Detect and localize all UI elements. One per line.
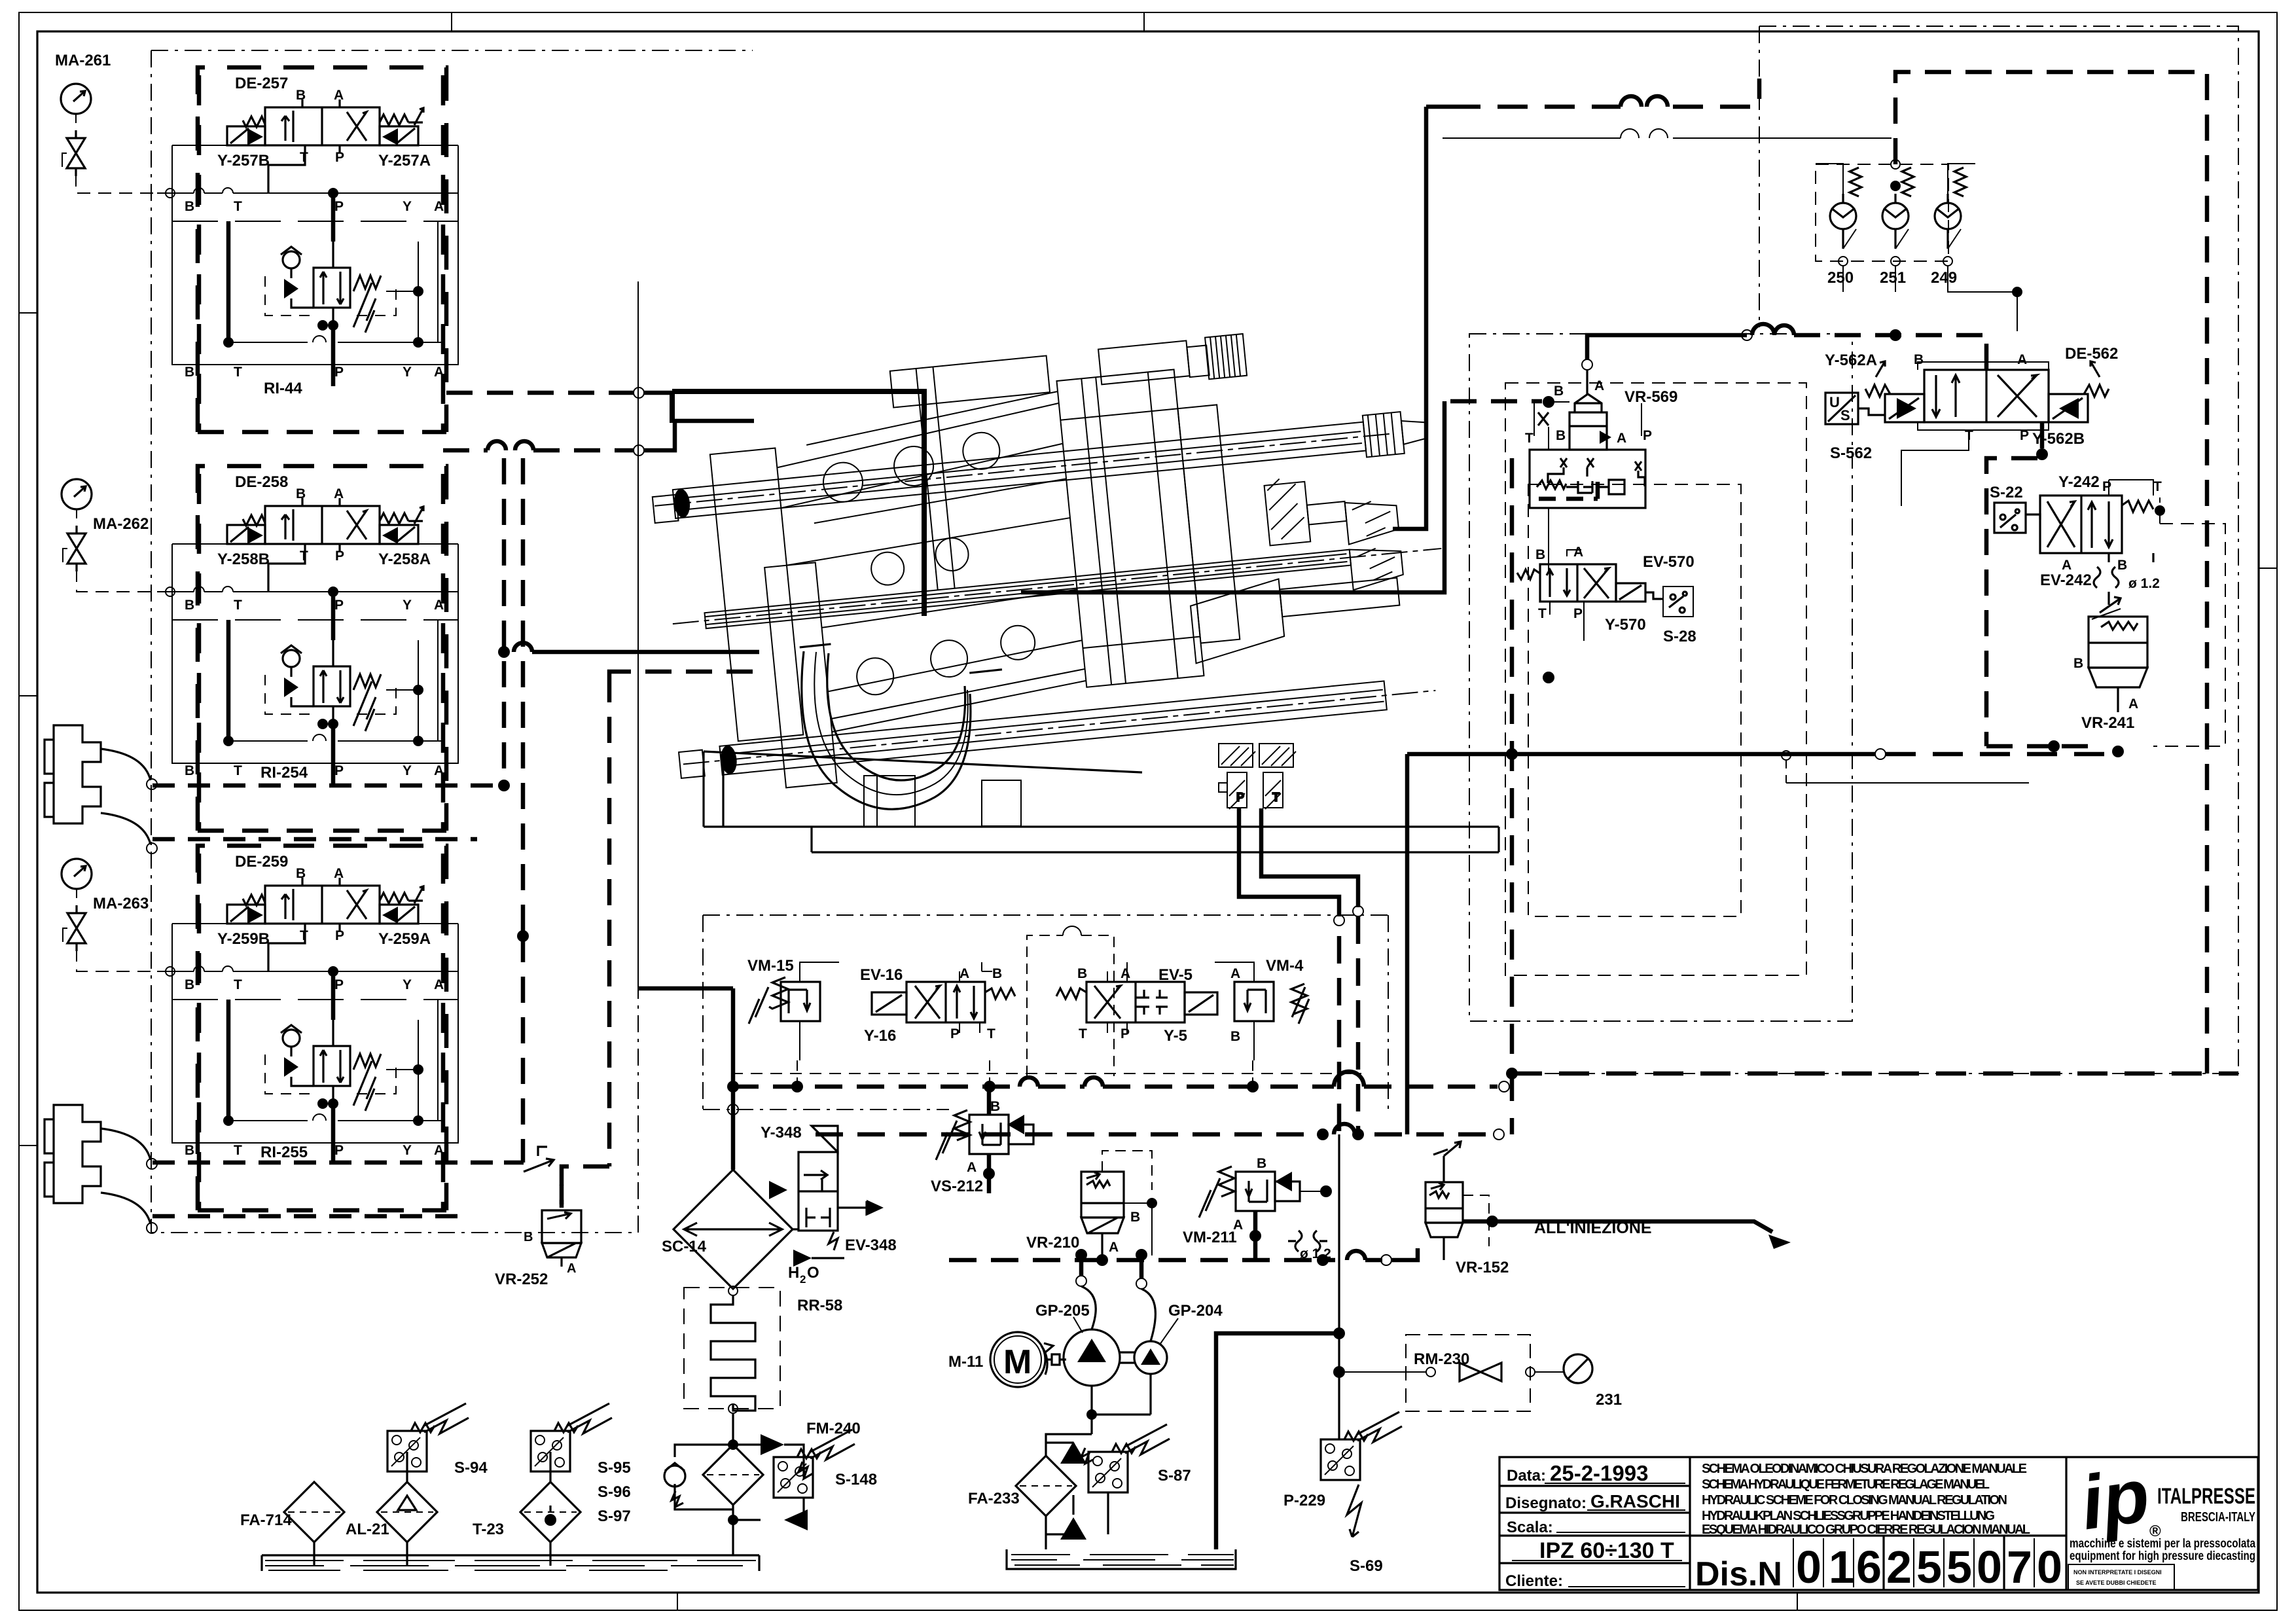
svg-text:RI-255: RI-255 [260,1144,308,1161]
svg-text:MA-262: MA-262 [93,515,149,533]
machine clamping unit drawing [642,79,2118,916]
twin heavy verticals from machine [1339,916,1358,1134]
node twin bus [498,646,510,658]
relief VR-210 [1026,1151,1157,1266]
wire to injection [1463,1221,1772,1232]
svg-text:MA-261: MA-261 [55,52,111,69]
svg-text:Y-258A: Y-258A [378,550,431,568]
svg-text:250: 250 [1827,269,1854,287]
heat exchanger SC-14 [673,1170,793,1289]
svg-text:Y-348: Y-348 [761,1124,802,1142]
svg-text:S-28: S-28 [1663,628,1696,645]
svg-text:A: A [1573,545,1583,560]
svg-text:GP-205: GP-205 [1035,1302,1090,1320]
frame tick top 1 [451,12,452,31]
svg-text:P: P [335,928,344,943]
tank bottom left [240,1403,759,1571]
valve group DE-258 [157,466,458,831]
title block [1499,1457,2258,1590]
svg-text:B: B [185,763,194,778]
pump group [948,1249,1236,1569]
wire y996 to machine [532,650,759,655]
svg-text:P: P [334,199,344,214]
svg-text:T: T [234,365,242,380]
bypass check top [761,1434,784,1455]
pressure switch S-94 [387,1403,469,1471]
svg-text:A: A [434,977,444,992]
svg-text:FA-714: FA-714 [240,1511,292,1529]
svg-text:HYDRAULIC SCHEME FOR CLOSING M: HYDRAULIC SCHEME FOR CLOSING MANUAL REGU… [1702,1493,2007,1507]
centerlines [655,430,1455,765]
frame tick left 2 [19,695,37,696]
svg-text:EV-16: EV-16 [860,966,903,984]
svg-text:ø 1.2: ø 1.2 [2128,576,2160,591]
svg-text:VM-15: VM-15 [747,957,794,975]
orifice symbol [1288,1231,1327,1252]
svg-text:Y-257A: Y-257A [378,152,431,170]
svg-text:VR-569: VR-569 [1624,388,1677,406]
bottom bus right region [1512,458,2238,1134]
wire cylinder2 to bus [152,1163,504,1216]
Italpresse logo [2068,1452,2255,1590]
wire MA-261 to manifold [76,173,166,193]
frame tick right 1 [2259,568,2277,569]
svg-text:Y-562A: Y-562A [1825,352,1877,369]
valve VM-211 [1183,1156,1332,1261]
title block description text [1702,1462,2030,1537]
svg-text:T: T [1538,606,1547,621]
right region outer dash-dot box [1512,26,2238,1074]
svg-text:A: A [434,365,444,380]
gauge MA-262 [62,479,92,571]
svg-text:S-96: S-96 [598,1483,631,1501]
svg-text:T: T [234,598,242,613]
svg-text:A: A [434,199,444,214]
svg-text:A: A [1617,431,1626,446]
svg-text:Data:: Data: [1507,1467,1546,1485]
svg-text:0: 0 [1796,1542,1821,1593]
svg-text:P: P [334,598,344,613]
pressure switch S-87 [1088,1424,1170,1492]
relief VR-152 [1426,1142,1509,1276]
hop arcs on y688 [488,441,533,450]
pump outlet hoses [1081,1286,1155,1341]
check valve left [664,1466,685,1487]
svg-text:P: P [334,977,344,992]
valve VS-212 [931,1087,1033,1195]
svg-text:FA-233: FA-233 [968,1490,1020,1507]
svg-text:Y: Y [403,365,412,380]
svg-text:B: B [1230,1029,1240,1044]
svg-text:P: P [334,365,344,380]
svg-text:231: 231 [1596,1391,1622,1409]
svg-text:Y-5: Y-5 [1164,1027,1187,1045]
svg-text:Y: Y [403,1143,412,1158]
machine base [704,751,1142,827]
radiator RR-58 [728,1286,738,1295]
svg-text:T: T [2153,479,2162,494]
svg-text:P: P [1121,1026,1130,1041]
motor M-11 [990,1332,1045,1387]
svg-text:O: O [807,1264,819,1282]
svg-text:B: B [2117,558,2127,573]
svg-text:T: T [234,763,242,778]
node cyl bus joints [498,780,510,791]
svg-text:SCHEMA HYDRAULIQUE FERMETURE R: SCHEMA HYDRAULIQUE FERMETURE REGLAGE MAN… [1702,1477,1990,1492]
svg-text:A: A [967,1160,977,1175]
svg-text:IPZ 60÷130 T: IPZ 60÷130 T [1539,1538,1674,1563]
valve VM-15 [747,957,839,1060]
arrow into SC-14 from right [793,1250,812,1267]
svg-text:B: B [185,598,194,613]
svg-text:T: T [987,1026,996,1041]
svg-text:1: 1 [1829,1542,1854,1593]
heavy line machine right to right region y1152 [1407,752,1876,757]
svg-text:P: P [1643,428,1652,443]
orifice [2094,567,2119,588]
svg-text:T: T [300,928,308,943]
svg-text:NON INTERPRETATE I DISEGNI: NON INTERPRETATE I DISEGNI [2073,1569,2162,1576]
gauge MA-263 [62,859,92,951]
A line up and right [1582,359,1592,370]
svg-text:T: T [300,549,308,564]
svg-text:RM-230: RM-230 [1414,1350,1469,1368]
svg-text:P: P [334,763,344,778]
B port bus [1543,396,1554,408]
svg-text:S: S [1840,407,1850,424]
svg-text:B: B [2073,656,2083,671]
heavy pipe around machine top-left [672,391,924,616]
svg-text:Y: Y [403,598,412,613]
wire MA-263 to manifold [77,948,166,971]
bus heavy y1730 [816,1132,1494,1137]
valve Y-242 EV-242 [1990,473,2162,619]
right middle cylinder [1265,482,1311,546]
filter T-23 [520,1482,581,1542]
relief valve VR-252 [495,1147,581,1288]
drawing number [1695,1536,2062,1593]
svg-text:A: A [334,486,344,501]
node on bus y688 [634,445,644,456]
vertical drop to P-229 [1338,1134,1340,1439]
shaft [1045,1354,1066,1365]
svg-text:S-95: S-95 [598,1459,631,1477]
svg-text:251: 251 [1880,269,1906,287]
svg-text:GP-204: GP-204 [1168,1302,1223,1320]
bus heavy y1925 [949,1258,1382,1263]
wire cylinder1 to bus [152,785,504,839]
wire SC-14 up [638,988,733,1170]
svg-text:VM-211: VM-211 [1183,1229,1237,1246]
shaft pumps [1120,1352,1149,1363]
svg-text:B: B [185,365,194,380]
filter FA-714 [284,1482,344,1542]
frame tick bottom 1 [677,1593,678,1610]
svg-text:B: B [1535,547,1545,562]
svg-text:Y-259A: Y-259A [378,930,431,948]
svg-text:M-11: M-11 [948,1353,983,1371]
svg-text:P: P [334,1143,344,1158]
node on bus y600 [634,388,644,398]
left region outer dash-dot box [151,50,753,1233]
bus heavy y1660 [731,1085,1498,1089]
svg-text:ITALPRESSE: ITALPRESSE [2157,1484,2255,1509]
tie bar top [673,422,1366,518]
svg-text:DE-259: DE-259 [235,853,288,871]
bypass check bottom [784,1509,808,1530]
svg-text:A: A [434,1143,444,1158]
svg-text:B: B [185,199,194,214]
svg-text:0: 0 [1977,1542,2002,1593]
svg-text:DE-257: DE-257 [235,75,288,92]
svg-text:A: A [2128,696,2138,712]
svg-text:S-87: S-87 [1158,1467,1191,1485]
inner dashed box EV-570 [1528,484,1741,916]
svg-text:FM-240: FM-240 [806,1420,861,1437]
hop arc twin bus [514,643,532,652]
tank line [262,1555,759,1571]
heavy dashed bus top right [1450,79,1759,107]
svg-text:S-69: S-69 [1350,1557,1383,1575]
bus: heavy dashed horizontal y688 [443,448,634,453]
heavy vertical x2150 [1405,754,1410,1134]
svg-text:H: H [788,1264,799,1282]
svg-text:A: A [1121,966,1130,981]
wire bus y600 to machine [644,391,674,395]
svg-text:Y: Y [403,763,412,778]
valve group DE-258 labels [217,473,431,782]
svg-text:B: B [992,966,1002,981]
svg-text:equipment for high pressure di: equipment for high pressure diecasting [2070,1549,2255,1563]
svg-text:RR-58: RR-58 [797,1297,842,1314]
title block left column text [1505,1461,1685,1590]
wire MA-262 to manifold [77,569,166,592]
check valves 250 251 249 [1816,160,2022,331]
manometer valve RM-230 [1345,1335,1622,1411]
bottom center group dash-dot box [703,915,1388,1110]
cylinder actuator 2 [45,1105,157,1233]
heavy pipe right side vertical [1393,107,1426,529]
svg-text:ip: ip [2075,1452,2154,1545]
svg-text:A: A [2017,352,2027,367]
svg-text:A: A [334,88,344,103]
valve group DE-259 labels [217,853,431,1161]
wire SC-14 to Y-348 [793,1178,822,1229]
heavy drain to tank [1216,1333,1339,1549]
svg-text:Y: Y [403,199,412,214]
toggle pins [821,461,865,504]
valve Y-348 EV-348 [798,1152,838,1231]
svg-text:P: P [335,150,344,165]
suction lines [1092,1374,1151,1434]
svg-text:0: 0 [2037,1542,2062,1593]
pressure switch S-95/96/97 [531,1403,612,1471]
valve DE-562 [1825,72,2207,1074]
svg-text:B: B [1554,384,1564,399]
tank under pumps [1007,1549,1236,1569]
svg-text:P: P [1573,606,1583,621]
svg-text:T: T [1525,431,1534,446]
wire corner x931 [609,672,759,676]
svg-text:BRESCIA-ITALY: BRESCIA-ITALY [2181,1510,2255,1525]
svg-text:6: 6 [1856,1542,1882,1593]
tie bar middle rod [704,550,1351,628]
svg-text:DE-562: DE-562 [2065,345,2118,363]
machine extra detail lines [673,431,1387,768]
top cylinder [1098,340,1190,384]
svg-text:VM-4: VM-4 [1266,957,1304,975]
P T manifold block [1219,744,1296,809]
svg-text:S-22: S-22 [1990,484,2023,501]
valve EV-5 [1056,962,1217,1045]
svg-text:RI-254: RI-254 [260,764,308,782]
svg-text:G.RASCHI: G.RASCHI [1590,1491,1680,1511]
svg-text:T: T [1079,1026,1087,1041]
valve group DE-259 [157,846,458,1210]
svg-text:A: A [960,966,969,981]
svg-text:B: B [1556,428,1566,443]
svg-text:VR-252: VR-252 [495,1271,548,1288]
valve VR-569 [1450,324,1986,683]
svg-text:Disegnato:: Disegnato: [1505,1494,1587,1512]
svg-text:T: T [234,977,242,992]
svg-text:T: T [234,1143,242,1158]
svg-text:VR-241: VR-241 [2081,714,2134,732]
svg-text:VR-210: VR-210 [1026,1234,1079,1252]
svg-text:A: A [1230,966,1240,981]
svg-text:B: B [1130,1210,1140,1225]
check valves around FA-233 [1060,1441,1086,1464]
svg-text:SCHEMA OLEODINAMICO CHIUSURA R: SCHEMA OLEODINAMICO CHIUSURA REGOLAZIONE… [1702,1462,2027,1476]
inner thin dashed box VR-569 group [1505,383,1806,975]
svg-text:B: B [1914,352,1924,367]
toggle links [774,403,1088,735]
svg-text:S-94: S-94 [454,1459,488,1477]
svg-text:B: B [524,1230,533,1244]
svg-text:B: B [185,977,194,992]
svg-text:A: A [1594,378,1604,393]
svg-text:5: 5 [1946,1542,1972,1593]
svg-text:Cliente:: Cliente: [1505,1572,1563,1590]
valve group DE-257 labels [217,75,431,397]
svg-text:RI-44: RI-44 [264,380,302,397]
svg-text:HYDRAULIKPLAN SCHLIESSGRUPPE H: HYDRAULIKPLAN SCHLIESSGRUPPE HANDEINSTEL… [1702,1509,1995,1523]
svg-text:A: A [2062,558,2072,573]
svg-text:B: B [990,1099,1000,1114]
svg-text:macchine e sistemi per la pres: macchine e sistemi per la pressocolata [2070,1537,2255,1551]
svg-text:ESQUEMA HIDRAULICO GRUPO CIERR: ESQUEMA HIDRAULICO GRUPO CIERRE REGULACI… [1702,1523,2030,1537]
svg-text:Y: Y [403,977,412,992]
valve group DE-257 [157,67,458,432]
tie bar bottom [719,681,1386,774]
svg-text:P: P [950,1026,960,1041]
svg-text:EV-348: EV-348 [845,1236,897,1254]
wire bus y688 to machine step [644,421,754,450]
svg-text:EV-242: EV-242 [2040,571,2092,589]
poppet cartridge [1570,394,1607,450]
moving platen [1056,370,1204,687]
svg-text:DE-258: DE-258 [235,473,288,491]
svg-text:P: P [335,549,344,564]
svg-text:T: T [1272,791,1280,804]
cylinder actuator 1 [45,725,157,854]
svg-text:B: B [296,486,306,501]
svg-text:B: B [185,1143,194,1158]
svg-text:MA-263: MA-263 [93,895,149,912]
filter AL-21 with check [377,1482,437,1542]
bus: heavy dashed horizontal group1 to machine [446,391,634,395]
cooler column [638,988,897,1555]
lightning S-69 [1347,1485,1361,1537]
frame tick left 1 [19,312,37,314]
frame tick left 3 [19,1145,37,1146]
svg-text:B: B [296,88,306,103]
svg-text:S-148: S-148 [835,1471,877,1489]
filter FM-240 [703,1445,763,1505]
svg-text:B: B [1077,966,1087,981]
EV-5 pilot dashed box [1027,935,1114,1076]
svg-text:Y-257B: Y-257B [217,152,270,170]
svg-text:P: P [2102,479,2111,494]
svg-text:T: T [300,150,308,165]
svg-text:A: A [1109,1240,1119,1255]
svg-text:Y-258B: Y-258B [217,550,270,568]
pump GP-205 [1064,1329,1120,1386]
pump GP-204 [1134,1341,1167,1374]
svg-text:P: P [1236,791,1244,804]
svg-text:T: T [234,199,242,214]
svg-text:2: 2 [800,1273,806,1286]
svg-text:A: A [567,1261,576,1276]
svg-text:AL-21: AL-21 [346,1521,389,1538]
VR-569 main block [1530,450,1645,508]
inner thin dashed connector row [731,1073,1361,1074]
node bus risers [797,1060,1253,1087]
svg-text:Y-16: Y-16 [864,1027,896,1045]
frame tick bottom 2 [1797,1593,1798,1610]
svg-text:SE AVETE DUBBI CHIEDETE: SE AVETE DUBBI CHIEDETE [2076,1579,2157,1586]
svg-text:SC-14: SC-14 [662,1238,707,1255]
svg-text:B: B [1257,1156,1266,1171]
bus: twin heavy dashed verticals [504,458,523,1163]
svg-text:P-229: P-229 [1283,1492,1325,1509]
pressure switch P-229 [1321,1412,1402,1480]
svg-text:S-562: S-562 [1830,444,1872,462]
svg-text:Dis.N: Dis.N [1695,1555,1782,1593]
frame tick top 2 [1143,12,1145,31]
relief VR-241 [1986,497,2225,757]
svg-text:2: 2 [1886,1542,1912,1593]
svg-text:A: A [334,866,344,881]
thin line under bus [1443,137,1892,139]
bus: heavy dashed vertical x931 [562,676,609,1208]
svg-text:5: 5 [1916,1542,1942,1593]
svg-text:249: 249 [1931,269,1957,287]
thin riser x975 [637,281,639,988]
svg-text:25-2-1993: 25-2-1993 [1550,1461,1648,1485]
throttle arrow above VR-252 [524,1147,554,1172]
svg-text:Y-570: Y-570 [1605,616,1646,634]
filter FA-233 [1016,1456,1076,1516]
gauge MA-261 [61,84,91,176]
thin line y1196 [1786,782,2029,784]
svg-text:Y-259B: Y-259B [217,930,270,948]
svg-text:ALL'INIEZIONE: ALL'INIEZIONE [1534,1219,1652,1237]
svg-text:Y-242: Y-242 [2058,473,2100,491]
svg-text:VR-152: VR-152 [1456,1259,1509,1276]
rear platen [710,448,803,742]
svg-text:S-97: S-97 [598,1507,631,1525]
